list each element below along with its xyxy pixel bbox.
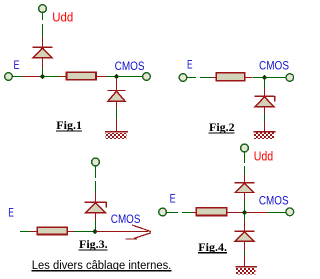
- diode D1 input-to-Udd (Fig.1): [32, 47, 52, 57]
- ground symbol (Fig.2): [254, 132, 276, 139]
- zener Z1 anode lead (Fig.2): [264, 107, 266, 114]
- wire Udd terminal stub (Fig.4): [244, 152, 246, 163]
- resistor R3 (Fig.3): [37, 227, 67, 234]
- junction node CMOS (Fig.4): [242, 210, 247, 215]
- node Udd terminal (Fig.1): [39, 5, 47, 13]
- svg-text:CMOS: CMOS: [111, 212, 141, 226]
- resistor R1 right lead (Fig.1): [96, 76, 107, 78]
- diode D3 cathode lead (Fig.4): [244, 175, 246, 182]
- resistor R4 left lead (Fig.4): [192, 212, 196, 214]
- ground lead (Fig.1): [116, 119, 118, 131]
- wire E terminal stub (Fig.4): [167, 212, 178, 214]
- wire node CMOS down (Fig.4): [244, 214, 246, 220]
- node E input terminal (Fig.2): [179, 74, 187, 82]
- resistor R2 (Fig.2): [216, 73, 245, 81]
- label Fig.1: [56, 118, 82, 132]
- resistor R1 (Fig.1): [67, 72, 97, 79]
- wire Udd terminal stub (Fig.1): [42, 13, 44, 20]
- zener Z1 cathode lead (Fig.2): [264, 88, 266, 96]
- CMOS gate input arrow (Fig.3): [97, 225, 152, 239]
- resistor R3 right lead (Fig.3): [67, 231, 74, 233]
- wire R1 to node CMOS (Fig.1): [107, 76, 114, 78]
- resistor R4 (Fig.4): [196, 208, 226, 216]
- wire E terminal to junction (Fig.1): [12, 76, 22, 78]
- node E input terminal (Fig.1): [5, 73, 13, 81]
- wire to diode D1 cathode (Fig.1): [42, 24, 44, 38]
- ground symbol (Fig.1): [105, 132, 128, 139]
- svg-text:E: E: [14, 58, 20, 72]
- wire to diode D3 (Fig.4): [244, 166, 246, 175]
- node Udd terminal (Fig.4): [241, 144, 249, 152]
- zener diode Z1 (Fig.2): [254, 96, 274, 107]
- wire to Z2 cathode (Fig.3): [95, 181, 97, 192]
- node supply terminal (Fig.3): [92, 158, 100, 166]
- diode D3 input-to-Udd (Fig.4): [235, 183, 255, 193]
- wire to output terminal (Fig.4): [268, 212, 286, 214]
- svg-text:Fig.4.: Fig.4.: [198, 240, 227, 254]
- diode D3 anode lead (Fig.4): [244, 192, 246, 200]
- svg-text:Fig.2: Fig.2: [209, 120, 235, 134]
- diode D2 ground-to-input (Fig.1): [107, 91, 125, 102]
- diode D2 cathode lead (Fig.1): [116, 78, 118, 90]
- caption: Les divers câblage internes.: [32, 258, 172, 272]
- diode D1 anode lead: [42, 58, 44, 68]
- svg-text:E: E: [170, 192, 176, 206]
- wire E input to R3 (Fig.3): [20, 231, 30, 233]
- diode D4 anode lead (Fig.4): [244, 241, 246, 251]
- wire to R2 (Fig.2): [200, 77, 212, 79]
- ground lead (Fig.4): [244, 255, 246, 266]
- wire Z1 to ground (Fig.2): [264, 114, 266, 121]
- junction node CMOS (Fig.2): [262, 75, 267, 80]
- resistor R2 left lead (Fig.2): [212, 77, 217, 79]
- svg-text:Udd: Udd: [254, 149, 274, 163]
- zener Z2 cathode lead (Fig.3): [95, 192, 97, 201]
- junction node A (Fig.1): [40, 74, 45, 79]
- diode D1 cathode lead: [42, 38, 44, 47]
- diode D2 anode lead (Fig.1): [116, 101, 118, 109]
- ground symbol (Fig.4): [236, 267, 257, 274]
- svg-text:Fig.1: Fig.1: [56, 118, 82, 132]
- wire D1 anode to node E (Fig.1): [42, 68, 44, 74]
- wire D3 to node CMOS (Fig.4): [244, 200, 246, 211]
- zener diode Z2 (Fig.3): [85, 202, 107, 213]
- node E input terminal (Fig.4): [159, 208, 167, 216]
- wire Z2 to node CMOS (Fig.3): [95, 221, 97, 230]
- wire node CMOS right (Fig.4): [246, 212, 268, 214]
- svg-text:E: E: [8, 206, 14, 220]
- wire segment to junction A (Fig.1): [22, 76, 41, 78]
- svg-text:CMOS: CMOS: [115, 59, 145, 73]
- resistor R2 right lead (Fig.2): [245, 77, 252, 79]
- wire node CMOS down (Fig.2): [264, 79, 266, 88]
- ground lead (Fig.2): [264, 121, 266, 131]
- node CMOS output terminal (Fig.2): [286, 74, 294, 82]
- junction node CMOS (Fig.1): [114, 74, 119, 79]
- wire D4 to ground (Fig.4): [244, 251, 246, 256]
- svg-text:CMOS: CMOS: [259, 194, 289, 208]
- wire to R4 (Fig.4): [182, 212, 192, 214]
- label Fig.2: [209, 120, 235, 134]
- svg-text:E: E: [187, 58, 193, 72]
- wire R3 to node CMOS (Fig.3): [74, 231, 93, 233]
- resistor R1 left lead (Fig.1): [59, 76, 67, 78]
- wire node CMOS to output terminal (Fig.1): [118, 76, 143, 78]
- resistor R4 right lead (Fig.4): [226, 212, 243, 214]
- resistor R3 left lead (Fig.3): [30, 231, 37, 233]
- diode D4 ground-to-input (Fig.4): [235, 231, 255, 241]
- svg-text:Fig.3.: Fig.3.: [79, 237, 108, 251]
- wire D2 to ground (Fig.1): [116, 109, 118, 119]
- node CMOS output terminal (Fig.1): [143, 73, 151, 81]
- node CMOS output terminal (Fig.4): [286, 208, 294, 216]
- svg-text:Les divers câblage internes.: Les divers câblage internes.: [32, 258, 172, 272]
- wire terminal to Z2 (Fig.3): [95, 166, 97, 178]
- label Fig.4.: [198, 240, 227, 254]
- svg-text:Udd: Udd: [52, 10, 73, 24]
- wire E terminal stub (Fig.2): [187, 77, 196, 79]
- svg-text:CMOS: CMOS: [259, 59, 289, 73]
- diode D4 cathode lead (Fig.4): [244, 220, 246, 231]
- wire R2 to node CMOS (Fig.2): [253, 77, 263, 79]
- junction node CMOS (Fig.3): [92, 229, 97, 234]
- wire junction A to R1 (Fig.1): [44, 76, 60, 78]
- zener Z2 anode lead (Fig.3): [95, 213, 97, 221]
- wire node CMOS to output terminal (Fig.2): [266, 77, 286, 79]
- label Fig.3.: [79, 237, 108, 251]
